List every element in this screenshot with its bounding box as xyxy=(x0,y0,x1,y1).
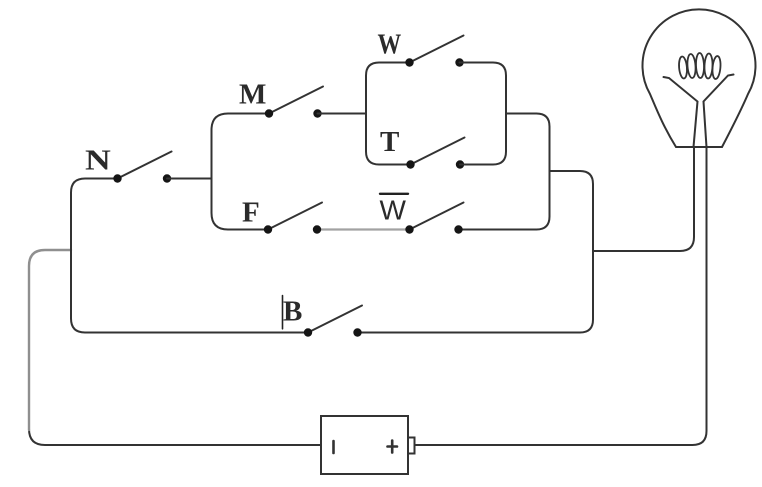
switch T xyxy=(406,138,464,169)
battery BT1 xyxy=(321,416,415,474)
svg-text:B: B xyxy=(283,296,302,328)
svg-text:T: T xyxy=(380,126,399,158)
wire W/T output down to W-bar output node xyxy=(459,114,550,230)
wire M output to W/T split xyxy=(318,113,367,115)
wire W/T right branch vertical xyxy=(460,63,507,165)
wire battery-positive to lamp right lead xyxy=(415,147,707,445)
wire battery-negative left riser (faded) xyxy=(29,250,71,430)
wire F output to W-bar input (gray) xyxy=(319,228,408,230)
svg-text:N: N xyxy=(85,145,111,177)
wire network output node down to B branch right xyxy=(358,171,594,333)
wire M/F left branch vertical xyxy=(212,114,270,230)
wire left riser: N input down to B branch xyxy=(71,179,308,333)
switch F xyxy=(264,203,322,234)
label W-bar xyxy=(380,194,409,226)
svg-text:W: W xyxy=(380,195,407,226)
switch W xyxy=(405,36,463,67)
svg-text:M: M xyxy=(239,79,266,111)
lamp DS1 glass envelope xyxy=(642,9,755,147)
lamp filament supports and stem xyxy=(664,75,734,148)
wire battery-negative bottom run xyxy=(29,429,321,445)
svg-text:F: F xyxy=(242,197,260,229)
lamp filament coil xyxy=(678,53,721,79)
wire N output to M/F split xyxy=(167,178,212,180)
switch M xyxy=(265,87,323,118)
wire W/T left branch vertical xyxy=(366,63,411,165)
switch B xyxy=(304,306,362,337)
svg-text:W: W xyxy=(378,29,402,61)
switch N xyxy=(113,152,171,183)
tick mark before B xyxy=(282,296,284,329)
wire output node to lamp left lead xyxy=(593,147,694,251)
switch W-bar xyxy=(405,203,463,234)
